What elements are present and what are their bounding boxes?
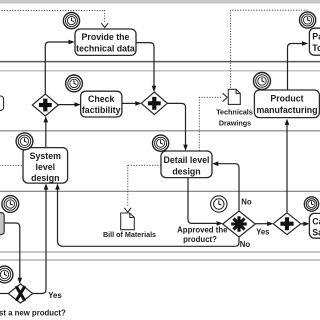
dotted association Detail task to Bill of Materials: [128, 165, 161, 206]
arrowhead into Product task bottom: [285, 119, 290, 125]
svg-text:Product: Product: [270, 93, 303, 103]
timer boundary event on System task: [16, 133, 33, 150]
timer boundary event on Catalog task: [304, 197, 318, 211]
complex gateway Approved the product: [223, 211, 256, 237]
svg-text:Catalog: Catalog: [312, 217, 320, 227]
exclusive gateway X Is it a new product: [8, 284, 32, 303]
task cut at left edge (white): [0, 96, 4, 110]
task Catalog Sales (cut at right): [309, 213, 320, 238]
wire gateway3 to Product task: [286, 125, 288, 213]
svg-text:factibility: factibility: [82, 105, 121, 115]
wire Product task to Packing task: [288, 44, 303, 91]
task Product manufacturing: [254, 90, 319, 118]
wire Provide task to gateway2: [136, 43, 154, 86]
wire Check task to gateway2: [122, 102, 136, 104]
svg-text:System: System: [30, 151, 61, 161]
arrowhead into X gateway top: [18, 278, 23, 284]
lane line 3: [0, 130, 320, 132]
data object Technicals Drawings: [228, 89, 240, 104]
svg-text:Drawings: Drawings: [219, 118, 251, 127]
wire X gateway Yes to System task: [33, 189, 46, 293]
wire gateway1 to Check task: [58, 104, 75, 106]
wire left edge to X gateway: [0, 293, 8, 295]
task cut at left edge (gray): [0, 213, 4, 235]
timer boundary event on Provide task: [63, 13, 79, 29]
svg-text:Packing: Packing: [312, 31, 320, 41]
svg-text:Bill of Materials: Bill of Materials: [103, 230, 156, 239]
wire complex gateway No-bottom to System task: [58, 189, 240, 246]
wire gray task to X gateway: [4, 223, 20, 278]
svg-text:st a new product?: st a new product?: [0, 308, 66, 317]
svg-text:Detail level: Detail level: [164, 155, 210, 165]
svg-text:Yes: Yes: [48, 291, 62, 300]
wire gateway2 to Detail task: [167, 103, 185, 144]
timer boundary event on Detail task: [153, 135, 169, 151]
wire gateway1 to Provide task: [45, 42, 69, 95]
arrowhead into gateway3 left: [267, 221, 273, 226]
wire complex gateway No-top to Detail task: [218, 164, 239, 211]
svg-text:Provide the: Provide the: [82, 32, 130, 42]
top gray band: [0, 0, 320, 4]
open arrowhead into Provide task top: [101, 23, 108, 27]
arrowhead into System task bottom (from complex): [55, 183, 60, 189]
parallel gateway 3: [273, 213, 301, 235]
open arrowhead into Technicals Drawings left: [223, 93, 228, 101]
arrowhead into Check task: [75, 102, 81, 107]
wire complex gateway Yes to gateway3: [255, 223, 267, 225]
open arrowhead into Bill of Materials top: [124, 208, 131, 212]
svg-text:technical data: technical data: [76, 43, 135, 53]
timer intermediate event near complex gateway: [211, 196, 227, 212]
dotted message flow left edge to System task: [0, 165, 22, 167]
wire gateway3 to Catalog task: [301, 223, 304, 225]
lane line 5: [0, 251, 320, 253]
task Packing (cut at right): [309, 28, 320, 55]
task Detail level design: [161, 151, 212, 178]
svg-text:Sales: Sales: [312, 228, 320, 238]
svg-text:Technicals: Technicals: [216, 107, 253, 116]
arrowhead into Packing task: [302, 41, 308, 46]
task System level design: [23, 148, 68, 184]
dotted message flow top-left to Provide task: [2, 11, 105, 24]
arrowhead into Detail task right: [212, 161, 218, 166]
timer boundary event on gray task: [2, 196, 19, 213]
svg-text:Approved the: Approved the: [177, 226, 228, 235]
svg-text:design: design: [31, 173, 59, 183]
timer boundary event on Product task: [254, 73, 271, 90]
timer boundary event on Packing task: [300, 12, 316, 28]
svg-text:No: No: [241, 198, 252, 207]
timer event at left edge bottom: [0, 266, 13, 283]
arrowhead into complex gateway left: [217, 221, 223, 226]
arrowhead into Detail task top: [183, 145, 188, 151]
dotted association Detail task to Technicals Drawings: [199, 97, 221, 150]
dotted message flow top-right to Technicals Drawings: [231, 10, 307, 88]
wire Detail task to complex gateway: [188, 178, 217, 224]
timer boundary event on Check task: [66, 75, 83, 92]
task Check factibility: [81, 91, 122, 117]
parallel gateway 2: [141, 92, 167, 115]
data object Bill of Materials: [121, 213, 135, 230]
svg-text:level: level: [36, 162, 56, 172]
svg-text:Tools: Tools: [312, 43, 320, 53]
arrowhead into System task bottom (from X Yes): [44, 183, 49, 189]
parallel gateway 1: [32, 94, 58, 116]
svg-text:manufacturing: manufacturing: [256, 105, 317, 115]
lane line 2: [0, 70, 320, 72]
arrowhead into Catalog task: [303, 222, 309, 227]
svg-text:Check: Check: [88, 94, 115, 104]
arrowhead into gateway2 left: [135, 101, 141, 106]
lane line 6: [0, 259, 320, 261]
svg-text:Yes: Yes: [256, 228, 270, 237]
task Provide the technical data: [75, 29, 136, 55]
svg-text:No: No: [240, 240, 251, 249]
arrowhead into Provide task: [69, 40, 75, 45]
arrowhead into gateway1 bottom: [44, 116, 49, 122]
svg-text:design: design: [172, 166, 200, 176]
svg-text:product?: product?: [183, 235, 217, 244]
wire System task to gateway1: [45, 122, 47, 147]
arrowhead into gateway2 top: [152, 86, 157, 92]
lane line 1: [0, 61, 320, 63]
lane line 4: [0, 190, 320, 192]
